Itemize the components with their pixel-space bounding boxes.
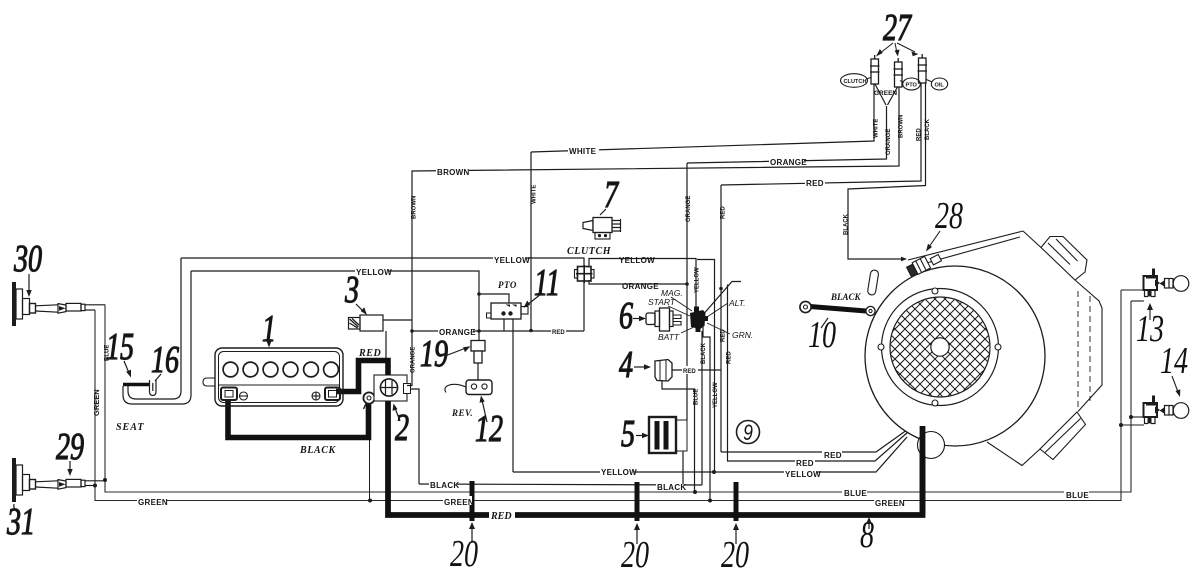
engine lower mount box [1040,412,1086,460]
wire GREEN bottom run from lamp 29 across to lamps 13/14 [95,290,1121,501]
svg-text:30: 30 [13,238,42,280]
engine fan screen ring [882,289,999,406]
screen bolt bottom [932,400,938,406]
svg-text:12: 12 [475,408,503,450]
connector tick 20 c [734,482,739,521]
svg-text:28: 28 [935,195,963,237]
engine bottom notch [987,442,1040,466]
wire YELLOW outer loop top [181,258,584,266]
wire PTO switch pin to cross run [503,319,505,331]
minus symbol [240,392,248,400]
lamp 13 [1144,269,1189,297]
plus symbol [312,392,320,400]
wire ORANGE top run [687,106,887,163]
ground strap 10 [810,307,866,312]
svg-text:RED: RED [806,179,824,188]
svg-text:BATT: BATT [658,332,680,342]
svg-text:10: 10 [808,314,836,356]
wire stubs lamp 13 [1121,289,1144,291]
connector 4 [655,360,672,382]
battery negative terminal [221,388,237,401]
wire thick cable redraw over bump [920,426,926,514]
svg-text:BLACK: BLACK [299,445,337,456]
label 6 with arrow [619,295,633,337]
screen bolt top [932,288,938,294]
svg-text:START: START [648,297,676,307]
PTO switch 11 [491,303,521,319]
svg-text:5: 5 [621,413,635,455]
svg-text:BLUE: BLUE [694,389,700,405]
svg-text:19: 19 [420,333,448,375]
svg-text:RED: RED [490,511,512,522]
svg-text:BLACK: BLACK [657,483,687,492]
svg-text:BROWN: BROWN [437,168,470,177]
svg-text:WHITE: WHITE [874,119,880,138]
wire GREEN ignition to green run [703,327,710,501]
wire YELLOW from clutch connector to ignition [589,259,696,312]
seat switch 15 contact bar [123,383,149,387]
wire BLUE bottom run from headlight 30 across to lamps 13/14 [105,301,1131,492]
clutch connector 4-pin [575,265,595,283]
wire connector 3 to brown vertical [383,319,412,321]
tag oval CLUTCH [841,74,868,88]
svg-text:OIL: OIL [935,83,945,89]
lamp 14 [1144,396,1189,424]
svg-text:BLACK: BLACK [925,118,931,140]
battery cells [223,362,238,377]
wire thick RED battery cable 8 solenoid to starter [388,399,923,515]
label 29 with arrow [56,426,84,468]
label 14 with leader [1160,340,1188,382]
svg-text:ALT.: ALT. [728,298,746,308]
wire RED upper run to engine [721,427,911,452]
wire PTO switch pin down to yellow bottom [512,319,514,472]
svg-text:ORANGE: ORANGE [622,282,659,291]
headlight 29 [12,458,105,502]
label RED italic on thick cable [489,509,515,519]
node 9 circled [737,421,760,444]
battery positive terminal [325,388,340,401]
connector oil [919,58,927,83]
svg-text:GREEN: GREEN [874,90,897,97]
wire clutch connector bottom to cross run [583,281,585,331]
ignition switch 6 [646,307,708,333]
battery handle tab [203,378,215,386]
engine fan hub [931,338,949,356]
label 3 with leader [344,269,359,311]
wire module 5 to ground run [682,451,684,485]
ground eyelet at solenoid [363,392,374,403]
svg-text:31: 31 [6,501,35,543]
svg-text:ORANGE: ORANGE [886,129,892,155]
label 12 with leader [475,408,503,450]
wire YELLOW inner loop top [191,271,479,341]
wire WHITE vertical drop [530,152,532,331]
label 2 with leader [395,407,409,449]
svg-text:YELLOW: YELLOW [494,256,530,265]
wire ORANGE vertical to item 5 [686,163,688,420]
svg-text:ORANGE: ORANGE [439,328,476,337]
svg-text:RED: RED [727,351,733,364]
wire RED connector 4 stub [672,369,721,371]
label 13 with arrow [1136,308,1164,350]
svg-text:ORANGE: ORANGE [686,196,692,222]
label 15 with leader [106,326,134,368]
svg-text:WHITE: WHITE [569,147,597,156]
wire thick RED battery positive cable to solenoid [336,361,388,392]
svg-text:RED: RED [824,451,842,460]
svg-text:BLACK: BLACK [430,481,460,490]
tag oval PTO [903,78,921,90]
svg-text:RED: RED [358,348,381,359]
ignition terminal labels [648,288,753,342]
connector tick 20 a [470,481,475,521]
svg-text:ORANGE: ORANGE [770,158,807,167]
label 1 with arrow [262,308,276,350]
headlight 30 [12,282,105,326]
wire BROWN top run [412,86,899,320]
battery 1 [203,348,343,406]
svg-text:PTO: PTO [906,83,918,89]
wire BLACK kill wire to magneto [848,82,926,259]
label 30 with leader [13,238,42,280]
svg-text:15: 15 [106,326,134,368]
wire RED ignition to mid run [727,285,729,462]
engine blower housing circle [865,266,1045,446]
node PTO branch [479,294,509,303]
label 19 with leader [420,333,448,375]
svg-text:BLACK: BLACK [844,213,850,235]
wire ORANGE from clutch connector [589,280,687,284]
wire thick BLACK battery negative cable to ground eyelet [228,400,369,438]
svg-text:BLACK: BLACK [701,342,707,364]
svg-text:BROWN: BROWN [412,196,418,219]
junction dot orange [410,329,414,333]
svg-text:6: 6 [619,295,633,337]
svg-text:RED: RED [796,459,814,468]
label 28 with leader [935,195,963,237]
wire BLACK solenoid tab down to ground run [411,389,420,484]
wire RED vertical from top run [720,185,722,452]
svg-text:9: 9 [743,421,753,445]
label RED x2 bottom [795,457,815,466]
wire YELLOW bottom run from PTO switch to engine [513,437,907,472]
svg-text:4: 4 [619,344,633,386]
svg-text:RED: RED [917,128,923,141]
svg-text:SEAT: SEAT [116,422,144,433]
label 11 with leader [534,262,560,304]
svg-text:GREEN: GREEN [444,498,474,507]
labels on loop wires [355,254,659,337]
engine facet edge [1023,231,1041,248]
svg-text:GREEN: GREEN [138,498,168,507]
label 10 with leader [808,314,836,356]
svg-text:GRN.: GRN. [732,330,753,340]
seat switch pin 16 [150,380,157,396]
svg-text:16: 16 [151,339,179,381]
wire BLACK ground run along bottom [419,484,702,485]
label 4 with arrow [619,344,633,386]
svg-text:BLUE: BLUE [1066,491,1089,500]
connector 3 [360,315,383,331]
label 31 with leader [6,501,35,543]
engine muffler box [1041,237,1087,281]
engine cooling fin lines [1077,291,1079,409]
wire GREEN ground to solenoid eyelet [369,440,371,501]
svg-text:YELLOW: YELLOW [619,256,655,265]
svg-text:CLUTCH: CLUTCH [567,246,612,257]
svg-text:YELLOW: YELLOW [785,470,821,479]
connector pto [895,62,903,87]
svg-text:YELLOW: YELLOW [713,382,719,408]
svg-text:7: 7 [604,174,619,216]
label 20 c with arrow [721,534,749,575]
wire ALT diagonal from ignition [701,282,741,318]
connector tick 20 b [635,482,640,521]
wire RED top run [721,82,921,185]
svg-text:RED: RED [683,369,696,375]
svg-text:20: 20 [450,533,478,575]
wire connector 3 drop to red cable [385,331,387,358]
label BLUE x2 [842,487,867,496]
fuse 19 [471,341,485,352]
svg-text:RED: RED [721,206,727,219]
engine starter bump [918,432,945,459]
svg-text:BLACK: BLACK [830,292,862,302]
svg-text:20: 20 [621,534,649,575]
engine block right edge [1075,280,1102,412]
wire WHITE top run [531,84,874,152]
connector clutch [871,59,879,84]
svg-text:BLUE: BLUE [844,489,867,498]
wire ORANGE/RED cross run [412,330,584,332]
svg-text:CLUTCH: CLUTCH [844,79,867,85]
ignition terminal cluster blob [690,310,706,329]
svg-text:BROWN: BROWN [899,115,905,138]
engine valve cover top edges [908,231,1023,267]
label 27 with fan arrows [883,7,912,49]
wire BLUE connector 4 to blue run [662,381,695,492]
screen bolt right [995,344,1001,350]
wire BLACK ignition to ground run [701,331,703,485]
svg-text:11: 11 [534,262,560,304]
junction dots bottom [93,415,1133,503]
label GREEN x3 [137,496,166,505]
wire ORANGE solenoid to junction [407,320,412,386]
harness connectors 27 [870,54,927,87]
label 5 with arrow [621,413,635,455]
svg-text:8: 8 [860,514,874,556]
svg-text:ORANGE: ORANGE [411,347,417,373]
svg-text:REV.: REV. [451,408,473,418]
label 7 with leader [604,174,619,216]
svg-text:WHITE: WHITE [532,185,538,204]
tag oval OIL [931,78,947,90]
svg-text:YELLOW: YELLOW [601,468,637,477]
clutch switch 7 [583,221,593,231]
screen bolt left [878,344,884,350]
label YELLOW x2 bottom [600,466,634,475]
wire stubs lamp 14 [1131,416,1144,418]
spark plug 28 [906,250,942,277]
wire GREEN vee from connectors [875,84,898,105]
svg-text:20: 20 [721,534,749,575]
label 8 with arrow [860,514,874,556]
engine dipstick tube [867,270,879,296]
svg-text:YELLOW: YELLOW [356,268,392,277]
solenoid 2 [374,375,407,401]
svg-text:PTO: PTO [498,280,517,290]
reverse switch 12 [466,380,492,395]
label 20 b with arrow [621,534,649,575]
seat switch 15/16 wiring loop [128,258,181,399]
svg-text:GREEN: GREEN [875,499,905,508]
svg-text:RED: RED [552,330,565,336]
module 5 [649,417,687,453]
wire RED mid run to engine [727,432,908,461]
wire YELLOW bridge and drop to yellow run [697,260,715,473]
label 20 a with arrow [450,533,478,575]
svg-text:14: 14 [1160,340,1188,382]
label BLACK on ground run [137,449,1089,522]
label 16 with leader [151,339,179,381]
svg-text:GREEN: GREEN [92,389,101,416]
svg-text:YELLOW: YELLOW [695,267,701,293]
